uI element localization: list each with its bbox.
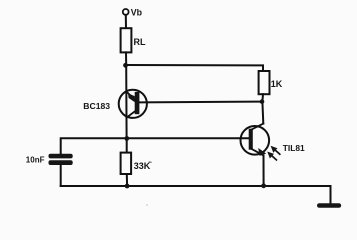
node C (emitter/33K/cap rail junction)	[124, 136, 129, 141]
transistor BC183	[119, 90, 147, 118]
wire cap to bottom rail	[60, 165, 62, 186]
light arrow 2	[267, 152, 276, 160]
wire collector rail through BC183	[125, 65, 127, 138]
svg-text:RL: RL	[134, 37, 146, 47]
svg-text:Vb: Vb	[131, 7, 143, 17]
wire node C to 33K	[126, 138, 128, 152]
resistor 1K	[259, 71, 270, 94]
wire 1K to node B	[261, 94, 264, 101]
wire bottom rail	[61, 185, 331, 187]
wire 33K to node D	[126, 174, 128, 186]
wire Vb to RL	[125, 15, 127, 28]
svg-text:~: ~	[149, 161, 153, 167]
ground	[317, 203, 341, 208]
svg-text:10nF: 10nF	[26, 155, 45, 164]
wire base of BC183 to node B	[140, 101, 262, 104]
node E (TIL81 emitter at bottom rail)	[261, 183, 266, 188]
node D (33K bottom)	[125, 184, 130, 189]
wire bottom rail to ground	[330, 186, 332, 204]
resistor 33K	[121, 153, 132, 174]
resistor RL	[121, 28, 132, 52]
wire TIL81 emitter to bottom rail	[263, 155, 265, 186]
node B	[260, 99, 265, 104]
light arrow 1	[271, 146, 280, 154]
wire node B to TIL81 collector	[261, 102, 264, 124]
capacitor 10nF	[49, 154, 73, 165]
wire RL to node A	[125, 52, 127, 65]
node A	[123, 63, 128, 68]
svg-text:BC183: BC183	[83, 101, 110, 111]
terminal Vb	[123, 9, 129, 15]
svg-text:1K: 1K	[271, 79, 283, 89]
scan speck	[146, 204, 148, 206]
wire mid rail to TIL81 base	[61, 138, 249, 153]
phototransistor TIL81	[241, 124, 270, 156]
wire node A to 1K (top rail)	[126, 65, 264, 71]
svg-text:TIL81: TIL81	[283, 143, 305, 153]
